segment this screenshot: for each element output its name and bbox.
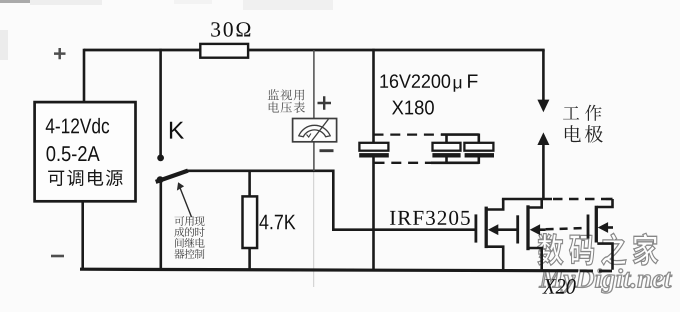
wire drain bus solid: [502, 198, 552, 201]
wire capacitor bottom bus (solid): [431, 162, 479, 165]
label 30Ω: [211, 22, 220, 37]
label 可调电源: [48, 171, 64, 186]
wire K to bottom rail: [160, 180, 163, 269]
label K: [170, 122, 184, 139]
transistor Q2 source stub: [529, 248, 542, 269]
watermark 数码之家: [538, 234, 563, 266]
label - (supply): [51, 255, 64, 258]
label 监视用电压表: [268, 89, 279, 100]
transistor Q3 body arrow: [598, 222, 608, 233]
voltmeter zero mark: [307, 134, 311, 138]
label + (voltmeter): [318, 96, 332, 109]
capacitor C1 bottom plate: [359, 153, 389, 157]
wire C2 top riser: [445, 134, 448, 143]
arrow annotation leader: [180, 187, 192, 218]
wire capacitor branch top: [372, 49, 375, 143]
wire capacitor top bus (dashed): [374, 133, 442, 135]
label 工作电极: [563, 106, 579, 119]
wire drain bus right solid: [606, 198, 613, 201]
label 4.7K: [259, 215, 268, 229]
resistor 4.7K: [243, 196, 258, 248]
wire drain bus dashed: [553, 198, 606, 201]
label X20: [542, 279, 556, 293]
label - (voltmeter): [320, 149, 334, 152]
transistor Q1 gate bar: [474, 214, 477, 242]
wire power supply - lead: [81, 201, 84, 269]
wire top rail right segment: [249, 49, 545, 52]
wire capacitor top bus (solid): [441, 133, 479, 136]
transistor Q1 drain stub: [487, 199, 503, 210]
wire electrode to drain bus: [542, 144, 545, 199]
wire voltmeter bottom lead: [313, 142, 315, 171]
arrow electrode down: [537, 100, 549, 113]
transistor Q1 body stub: [497, 228, 518, 231]
capacitor C2 top plate: [433, 143, 461, 151]
wire (faint crease): [313, 172, 315, 287]
transistor Q1 channel bar: [485, 207, 488, 249]
wire top rail left segment: [84, 49, 200, 52]
voltmeter body: [293, 119, 337, 142]
capacitor C3 top plate: [464, 143, 493, 151]
wire 4.7K top lead: [248, 171, 251, 197]
wire capacitor bottom bus (dashed): [375, 162, 432, 164]
wire gate bus dashed: [546, 228, 587, 229]
label X180: [392, 101, 403, 115]
transistor Q3 gate bar: [587, 215, 590, 239]
transistor Q1 body arrow: [488, 224, 498, 235]
watermark MyDigit.net: [539, 270, 564, 288]
capacitor C1 top plate: [359, 143, 388, 151]
transistor Q2 gate bar: [516, 215, 519, 243]
wire power supply + lead: [83, 49, 86, 102]
arrow electrode up: [537, 132, 549, 145]
transistor Q1 source stub: [487, 247, 503, 270]
transistor Q3 body stub: [607, 226, 613, 229]
wire C3 bottom riser: [477, 158, 480, 164]
wire voltmeter top lead: [313, 50, 315, 119]
transistor Q2 channel bar: [526, 205, 529, 250]
transistor Q2 drain stub: [529, 199, 542, 208]
voltmeter scale arc: [299, 125, 330, 136]
transistor Q3 source stub: [597, 244, 612, 270]
wire 4.7K bottom lead: [248, 248, 251, 270]
wire bottom rail: [80, 269, 578, 271]
transistor Q2 body stub: [539, 228, 546, 231]
transistor Q3 drain stub: [597, 199, 612, 207]
label IRF3205: [390, 211, 396, 225]
wire K branch: [159, 49, 162, 156]
arrow annotation head: [177, 182, 184, 190]
label + (supply): [54, 48, 66, 59]
wire C2 bottom riser: [445, 158, 448, 164]
voltmeter needle: [312, 119, 329, 141]
power supply 4-12Vdc box: [35, 102, 136, 201]
transistor Q2 body arrow: [530, 224, 540, 235]
transistor Q3 channel bar: [595, 206, 598, 243]
node K pivot: [157, 176, 164, 183]
capacitor C2 bottom plate: [432, 153, 460, 157]
wire switch to gate node: [187, 171, 475, 230]
wire capacitor branch bottom: [372, 158, 375, 270]
wire C3 top riser: [477, 134, 480, 143]
capacitor C3 bottom plate: [465, 153, 494, 157]
label 16V2200uF: [380, 75, 388, 88]
switch K blade: [156, 171, 188, 182]
resistor 30Ω: [200, 44, 248, 58]
label 可用现成的时间继电器控制: [174, 216, 184, 226]
node K upper contact: [157, 155, 164, 162]
wire electrode branch: [542, 50, 545, 101]
wire bottom rail dashed extension: [580, 269, 613, 272]
